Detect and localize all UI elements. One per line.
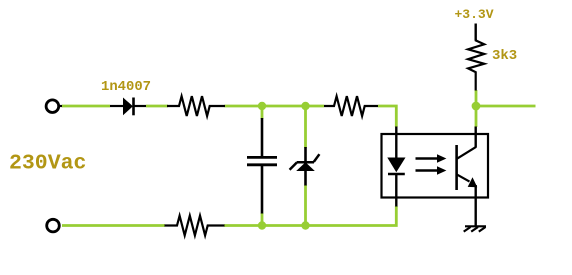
- wire: node C to the right: [476, 105, 536, 108]
- wire top: node A to node B: [262, 105, 306, 108]
- wire top: node B to R2: [306, 105, 325, 108]
- optocoupler U1 box: [382, 134, 489, 198]
- wire: node B down to zener: [304, 106, 307, 148]
- resistor R2: [324, 96, 378, 116]
- wire: capacitor to bottom node A2: [261, 213, 264, 226]
- optocoupler phototransistor: [457, 127, 478, 226]
- node B2 junction dot: [301, 221, 309, 229]
- wire top: R2 to corner: [378, 106, 396, 127]
- wire: 3k3 resistor to node C: [475, 90, 478, 106]
- wire top: diode to R1: [146, 105, 168, 108]
- power +3.3V lead: [475, 24, 477, 41]
- resistor R4 3k3 (vertical): [468, 39, 484, 91]
- coupling arrow 2: [416, 166, 447, 175]
- wire top: R1 to node A: [225, 105, 263, 108]
- node B junction dot: [301, 102, 309, 110]
- resistor R3: [165, 216, 225, 236]
- wire: zener to bottom node B2: [304, 185, 307, 226]
- node A junction dot: [258, 102, 266, 110]
- wire bottom: R3 to corner at LED return: [224, 206, 396, 226]
- wire bottom: terminal to R3: [62, 224, 165, 227]
- optocoupler LED: [387, 127, 405, 207]
- terminal top-left: [46, 100, 59, 113]
- diode 1n4007: [110, 98, 146, 116]
- resistor R1: [167, 96, 225, 116]
- svg-text:+3.3V: +3.3V: [455, 7, 494, 22]
- svg-text:3k3: 3k3: [492, 48, 517, 64]
- zener diode Z1: [290, 147, 320, 186]
- wire top: terminal to diode: [62, 105, 110, 108]
- node A2 junction dot: [258, 221, 266, 229]
- terminal bottom-left: [47, 219, 60, 232]
- wire: node A down to capacitor: [261, 106, 264, 119]
- wire top: terminal stub: [58, 105, 63, 107]
- svg-text:1n4007: 1n4007: [101, 79, 151, 95]
- node C junction dot: [472, 102, 481, 111]
- svg-text:230Vac: 230Vac: [9, 152, 86, 176]
- capacitor C1: [247, 118, 277, 214]
- ground: [464, 226, 486, 231]
- coupling arrow 1: [416, 154, 447, 163]
- wire: node C down to optocoupler: [475, 106, 478, 127]
